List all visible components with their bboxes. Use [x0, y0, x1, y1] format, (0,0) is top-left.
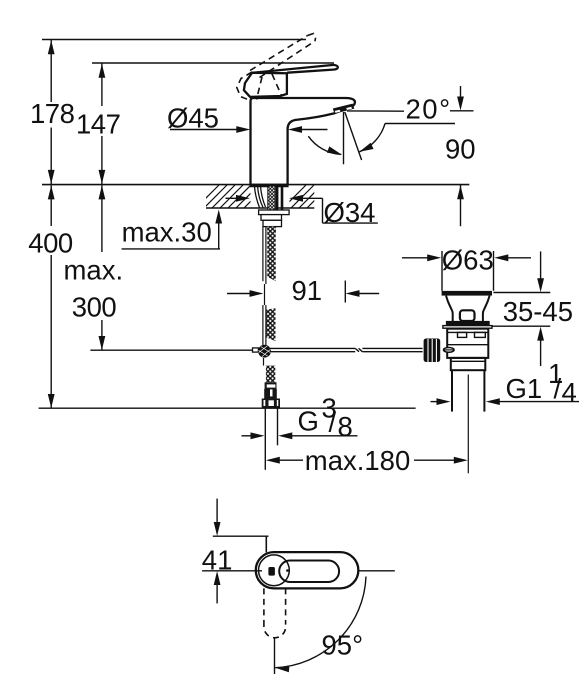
svg-text:95°: 95°: [322, 630, 364, 661]
svg-text:Ø34: Ø34: [324, 197, 376, 228]
svg-text:4: 4: [562, 377, 577, 408]
svg-text:Ø45: Ø45: [167, 102, 219, 133]
svg-text:G1: G1: [506, 373, 543, 404]
svg-text:300: 300: [72, 292, 117, 323]
svg-text:Ø63: Ø63: [442, 244, 494, 275]
svg-text:41: 41: [202, 544, 233, 575]
svg-text:/: /: [329, 407, 337, 438]
svg-text:147: 147: [76, 109, 120, 140]
svg-text:20°: 20°: [406, 94, 452, 125]
svg-text:max.180: max.180: [305, 445, 410, 476]
svg-text:91: 91: [292, 275, 323, 306]
svg-text:G: G: [298, 406, 319, 437]
svg-text:90: 90: [445, 133, 476, 164]
svg-text:max.30: max.30: [122, 216, 212, 247]
svg-text:/: /: [554, 373, 562, 404]
svg-text:8: 8: [338, 411, 353, 442]
svg-text:178: 178: [30, 98, 75, 129]
svg-text:35-45: 35-45: [503, 296, 573, 327]
svg-text:max.: max.: [64, 255, 124, 286]
